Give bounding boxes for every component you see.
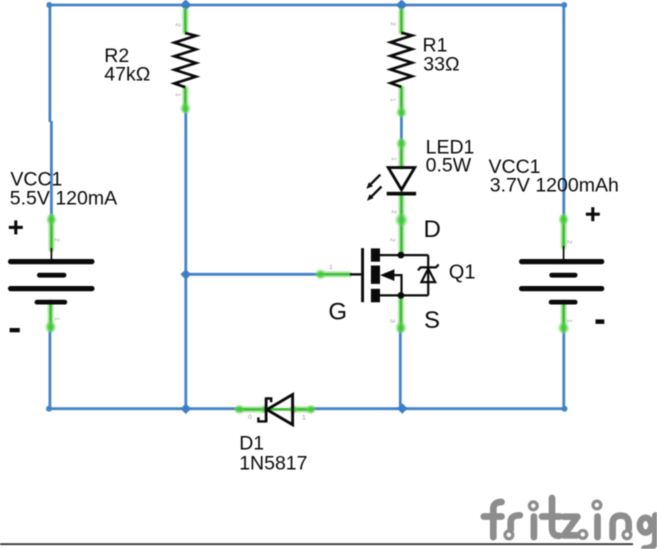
- node: junction bottom-left (middle/bottom rail): [180, 403, 191, 414]
- node: junction bottom-right (mosfet/bottom rail): [397, 403, 408, 414]
- node: corner caps: [46, 2, 568, 412]
- svg-text:1: 1: [329, 264, 333, 271]
- node: junction gate branch: [180, 269, 191, 280]
- svg-text:1: 1: [53, 317, 60, 321]
- svg-text:5.5V 120mA: 5.5V 120mA: [10, 188, 117, 210]
- label D G S pins: [328, 216, 440, 334]
- pin cores (green): [51, 10, 564, 410]
- svg-text:2: 2: [389, 22, 396, 26]
- svg-text:1: 1: [174, 93, 181, 97]
- transistor Q1 gate lead: [350, 273, 361, 275]
- wire: gate branch horizontal: [186, 273, 319, 276]
- wire: middle vertical (R2 to bottom): [184, 110, 187, 409]
- wire: right rail upper: [562, 5, 565, 216]
- wire: left rail lower: [49, 331, 52, 409]
- resistor R1 zigzag: [391, 33, 413, 87]
- fritzing watermark: [484, 498, 656, 549]
- wire: bottom rail right of D1: [312, 407, 566, 410]
- svg-text:3: 3: [389, 319, 396, 323]
- svg-text:2: 2: [174, 23, 181, 27]
- wire: R1 bottom to LED: [400, 113, 403, 142]
- svg-text:2: 2: [390, 210, 397, 214]
- svg-text:G: G: [328, 298, 347, 325]
- svg-text:33Ω: 33Ω: [423, 53, 459, 75]
- svg-text:Q1: Q1: [449, 261, 476, 283]
- diode D1 cathode bar with schottky hooks: [258, 395, 292, 425]
- svg-text:1N5817: 1N5817: [239, 452, 307, 474]
- LED LED1 cathode bar: [387, 192, 416, 196]
- node: junction top-right (R1/top rail): [396, 0, 407, 11]
- battery VCC1 right minus: [596, 319, 605, 324]
- svg-text:1: 1: [566, 319, 573, 323]
- transistor Q1 body arrow: [380, 269, 394, 281]
- LED LED1 emission arrows: [366, 175, 381, 201]
- svg-text:1: 1: [302, 415, 306, 422]
- svg-text:D1: D1: [239, 432, 264, 454]
- transistor Q1 (N-MOSFET) gate bar: [361, 248, 364, 302]
- fritzing pad rings: [505, 501, 631, 539]
- wire: right rail lower: [562, 331, 565, 409]
- svg-text:2: 2: [389, 238, 396, 242]
- fritzing g bowl: [640, 518, 652, 533]
- node: junction top-left (R2/top rail): [180, 0, 191, 11]
- battery VCC1 left minus: [10, 328, 20, 332]
- pin end glows: [44, 103, 570, 415]
- wire: mosfet source to bottom: [399, 329, 402, 409]
- battery VCC1 left plus: [9, 220, 23, 234]
- svg-text:D: D: [424, 216, 441, 243]
- transistor Q1 source node dot: [398, 292, 405, 299]
- svg-text:2: 2: [53, 238, 60, 242]
- wire: bottom rail left of D1: [49, 407, 239, 410]
- transistor Q1 internal wires: [380, 255, 428, 295]
- LED LED1 triangle: [387, 168, 416, 196]
- pin number labels (tiny gray): [53, 22, 573, 422]
- transistor Q1 channel bars: [371, 248, 380, 261]
- svg-text:1: 1: [390, 157, 397, 161]
- bottom border line: [0, 543, 633, 545]
- transistor Q1 drain node dot: [398, 252, 405, 259]
- svg-text:1: 1: [389, 98, 396, 102]
- diode D1 triangle: [267, 395, 293, 425]
- battery VCC1 left plates: [8, 248, 95, 305]
- wire: left rail upper: [49, 5, 52, 122]
- svg-text:0.5W: 0.5W: [426, 154, 472, 176]
- transistor Q1 body diode: [418, 265, 439, 283]
- svg-text:S: S: [424, 307, 440, 334]
- svg-text:3.7V 1200mAh: 3.7V 1200mAh: [490, 175, 619, 197]
- battery VCC1 right plates: [519, 246, 604, 305]
- svg-text:2: 2: [566, 240, 573, 244]
- resistor R2 zigzag: [174, 33, 196, 87]
- pin halos (green): [51, 11, 564, 409]
- battery VCC1 right plus: [586, 207, 600, 221]
- svg-text:0: 0: [248, 414, 252, 421]
- wire: top rail: [49, 5, 566, 409]
- svg-text:47kΩ: 47kΩ: [104, 64, 150, 86]
- label R2 value: [10, 35, 619, 475]
